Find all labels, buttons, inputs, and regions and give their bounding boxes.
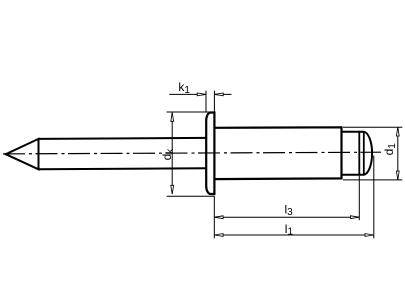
dome feature line 1 xyxy=(358,132,360,175)
mandrel shaft xyxy=(39,138,207,169)
svg-text:dk: dk xyxy=(160,148,176,161)
d1 ext line top xyxy=(343,126,402,128)
mandrel tip cone xyxy=(6,139,39,169)
centerline xyxy=(3,152,381,154)
k1 dimension xyxy=(169,91,231,112)
l1 right ext line xyxy=(373,156,375,239)
l3 dim line xyxy=(215,216,359,218)
dk dimension xyxy=(167,112,215,196)
l1 dimension xyxy=(215,156,374,239)
mandrel head (dome) xyxy=(342,132,373,175)
rivet head (flange) xyxy=(206,113,214,195)
k1 arrow left (pointing right) xyxy=(197,93,206,96)
k1 ext line right xyxy=(213,91,215,112)
k1 arrow right (pointing left) xyxy=(214,93,223,96)
d1 arrow bottom (pointing down) xyxy=(396,171,399,180)
dome feature line 2 xyxy=(363,132,365,175)
dk ext line bottom xyxy=(167,195,215,197)
l1 arrow right xyxy=(365,234,374,237)
l3 / l1 common left ext line xyxy=(213,196,215,238)
l1 dim line xyxy=(215,234,374,236)
d1 dimension xyxy=(343,127,402,180)
l3 arrow left xyxy=(214,216,223,219)
svg-text:l3: l3 xyxy=(285,203,294,219)
dk arrow bottom (pointing down) xyxy=(171,185,174,194)
rivet body (shank) xyxy=(214,127,341,179)
l3 arrow right xyxy=(351,216,360,219)
k1 ext line left xyxy=(205,91,207,112)
svg-text:d1: d1 xyxy=(382,143,398,156)
svg-text:k1: k1 xyxy=(178,80,190,96)
dk arrow top (pointing up) xyxy=(171,113,174,122)
svg-text:l1: l1 xyxy=(285,222,294,238)
d1 dim line xyxy=(397,128,399,180)
l3 right ext line xyxy=(358,176,360,221)
d1 arrow top (pointing up) xyxy=(396,127,399,136)
k1 dim line xyxy=(169,93,231,95)
l1 arrow left xyxy=(214,234,223,237)
d1 ext line bottom xyxy=(343,179,402,181)
dk dim line xyxy=(171,113,173,194)
dk ext line top xyxy=(167,111,214,113)
l3 dimension xyxy=(214,176,359,239)
